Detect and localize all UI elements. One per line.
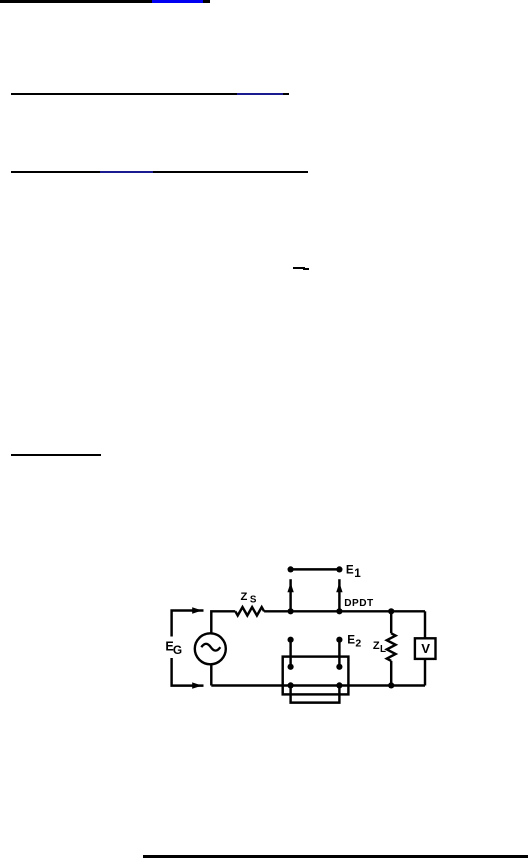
wire: ZL top lead: [390, 611, 392, 633]
svg-text:Z: Z: [373, 640, 380, 652]
node: E1 right terminal dot: [336, 566, 342, 572]
resistor ZS: [235, 607, 264, 615]
svg-text:E: E: [347, 633, 355, 646]
node: E1 left terminal dot: [288, 566, 294, 572]
wire: voltmeter top lead: [424, 611, 426, 638]
node: box inner top-right dot: [336, 664, 342, 670]
node: ZL bottom dot: [388, 682, 394, 688]
wire: E1 terminal link (top): [291, 568, 340, 570]
arrowhead switch pole 2: [336, 583, 342, 593]
underline rule 4: [11, 454, 101, 456]
svg-text:E: E: [346, 563, 354, 576]
resistor ZL: [387, 633, 396, 661]
svg-text:1: 1: [354, 567, 361, 580]
svg-text:S: S: [250, 594, 257, 605]
wire: shorting loop below box: [291, 685, 340, 702]
wire: top bus left segment (source top corner to ZS): [211, 611, 235, 634]
arrowhead switch pole 1: [287, 583, 293, 593]
sine symbol inside source: [201, 644, 220, 651]
svg-text:Z: Z: [241, 591, 248, 603]
svg-text:2: 2: [355, 638, 361, 650]
underline rule 1 (black left part): [0, 0, 152, 3]
underline rule 3 (black right part): [153, 171, 308, 173]
generator EG (AC source): [195, 633, 226, 664]
bottom horizontal rule: [143, 855, 528, 858]
node: box inner top-left dot: [288, 664, 294, 670]
device box (lower DPDT contacts enclosure): [283, 657, 349, 695]
EG bracket (left measurement bracket with arrows): [172, 611, 204, 686]
wire: voltmeter bottom lead: [424, 659, 426, 686]
node: E2 right terminal dot: [336, 637, 342, 643]
switch pole 2 blade (arrow up): [338, 579, 340, 611]
wire: top bus right segment (ZS to voltmeter corner): [264, 610, 425, 612]
underline rule 2 (black right part): [283, 93, 289, 95]
node: bus dot pole 1: [288, 608, 294, 614]
node: box inner bottom-right dot: [336, 682, 342, 688]
arrowhead on bottom EG bracket arm: [192, 682, 202, 688]
underline rule 1 (blue link part): [152, 0, 203, 3]
underline rule 1 (black right part): [203, 0, 210, 3]
node: bus dot pole 2 (DPDT): [336, 608, 342, 614]
wire: E2 left stub into box: [289, 640, 291, 667]
small dash (overline fragment, left step): [293, 267, 305, 269]
underline rule 2 (black left part): [11, 93, 237, 95]
arrowhead on top EG bracket arm: [192, 607, 202, 613]
wire: source bottom lead: [210, 664, 212, 685]
wire: E2 right stub into box: [338, 640, 340, 667]
switch pole 1 blade (arrow up): [289, 579, 291, 611]
node: box inner bottom-left dot: [288, 682, 294, 688]
voltmeter V box: [415, 638, 436, 659]
small dash (overline fragment, right step): [303, 268, 310, 270]
svg-text:G: G: [173, 643, 182, 657]
svg-text:DPDT: DPDT: [344, 598, 374, 609]
node: ZL top dot: [388, 608, 394, 614]
underline rule 3 (blue link part): [100, 171, 153, 173]
svg-text:V: V: [421, 641, 430, 656]
wire: bottom bus: [211, 684, 425, 686]
svg-text:L: L: [380, 644, 386, 655]
node: E2 left terminal dot: [288, 637, 294, 643]
underline rule 2 (blue link part): [237, 93, 283, 95]
underline rule 3 (black left part): [11, 171, 100, 173]
wire: ZL bottom lead: [390, 661, 392, 686]
